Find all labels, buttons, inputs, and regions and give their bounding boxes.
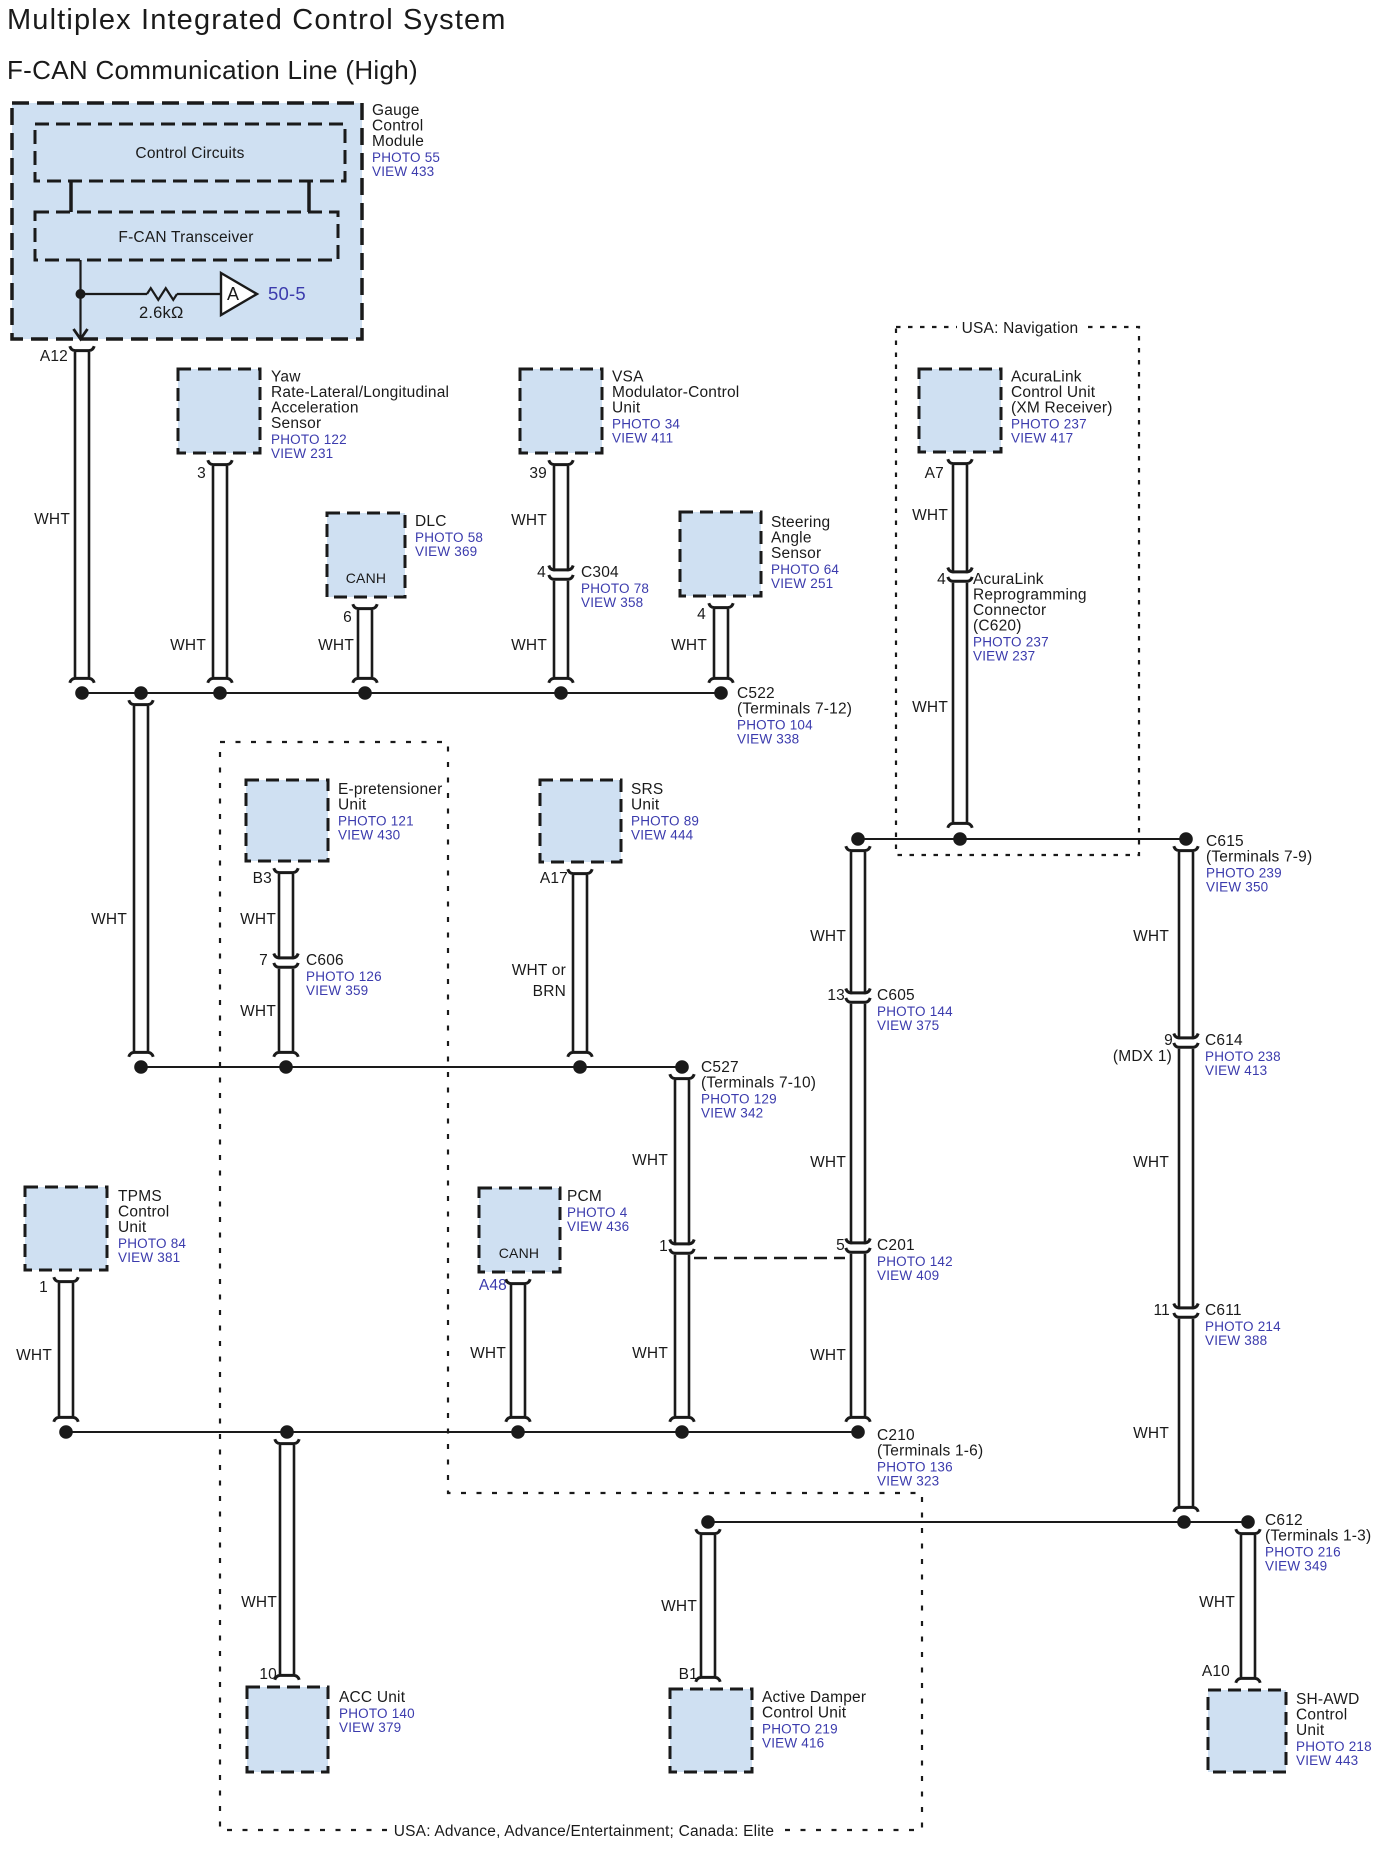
junction dot: bottom bus left end	[701, 1515, 715, 1529]
label block: TPMS control unit	[118, 1188, 186, 1265]
label block: DLC	[415, 513, 483, 559]
junction dot: C210 bus at C527 wire	[675, 1425, 689, 1439]
svg-text:BRN: BRN	[533, 983, 566, 1000]
svg-text:WHT: WHT	[632, 1152, 668, 1169]
svg-text:PHOTO 89: PHOTO 89	[631, 814, 699, 829]
svg-text:VIEW 433: VIEW 433	[372, 164, 434, 179]
svg-text:VIEW 436: VIEW 436	[567, 1219, 629, 1234]
wire: transceiver output down to A12 with arrow	[74, 260, 88, 339]
F-CAN Transceiver box	[35, 212, 338, 260]
svg-text:VIEW 409: VIEW 409	[877, 1268, 939, 1283]
svg-text:PHOTO 55: PHOTO 55	[372, 150, 440, 165]
svg-text:WHT: WHT	[318, 637, 354, 654]
wire Yaw pin3 to bus1	[208, 460, 232, 683]
label block: SRS unit	[631, 781, 699, 843]
svg-text:WHT: WHT	[34, 511, 70, 528]
svg-text:Unit: Unit	[631, 797, 660, 814]
svg-text:PHOTO 84: PHOTO 84	[118, 1236, 186, 1251]
svg-text:3: 3	[197, 465, 206, 482]
svg-text:WHT: WHT	[661, 1598, 697, 1615]
svg-text:SH-AWD: SH-AWD	[1296, 1691, 1359, 1708]
E-pretensioner unit box	[246, 780, 328, 861]
svg-text:C606: C606	[306, 952, 344, 969]
AcuraLink control unit box	[919, 369, 1001, 452]
svg-text:C614: C614	[1205, 1032, 1243, 1049]
svg-text:PHOTO 126: PHOTO 126	[306, 969, 382, 984]
svg-text:Rate-Lateral/Longitudinal: Rate-Lateral/Longitudinal	[271, 384, 449, 401]
wire bus1 to bus2 (left trunk)	[129, 700, 153, 1057]
svg-text:Angle: Angle	[771, 530, 812, 547]
svg-text:(Terminals 1-3): (Terminals 1-3)	[1265, 1528, 1371, 1545]
svg-text:VIEW 251: VIEW 251	[771, 576, 833, 591]
svg-text:PHOTO 64: PHOTO 64	[771, 562, 839, 577]
svg-text:4: 4	[937, 571, 946, 588]
svg-text:Control: Control	[118, 1204, 169, 1221]
svg-text:VIEW 375: VIEW 375	[877, 1018, 939, 1033]
svg-text:PHOTO 4: PHOTO 4	[567, 1205, 628, 1220]
svg-text:WHT: WHT	[671, 637, 707, 654]
VSA modulator box	[520, 369, 602, 453]
svg-text:9: 9	[1164, 1032, 1173, 1049]
label block: Gauge Control Module	[372, 102, 440, 179]
wire C527 to C210 bus via C527 pin1	[670, 1074, 694, 1422]
svg-text:VIEW 444: VIEW 444	[631, 828, 694, 843]
svg-text:VIEW 381: VIEW 381	[118, 1250, 180, 1265]
DLC box	[327, 513, 405, 597]
svg-text:Sensor: Sensor	[771, 545, 821, 562]
svg-text:PHOTO 78: PHOTO 78	[581, 581, 649, 596]
svg-text:VIEW 430: VIEW 430	[338, 828, 400, 843]
svg-text:PHOTO 34: PHOTO 34	[612, 417, 680, 432]
svg-text:C527: C527	[701, 1059, 739, 1076]
svg-text:PHOTO 219: PHOTO 219	[762, 1722, 838, 1737]
svg-text:USA: Advance, Advance/Entertai: USA: Advance, Advance/Entertainment; Can…	[394, 1823, 775, 1840]
junction dot: C210 bus at PCM	[511, 1425, 525, 1439]
svg-text:6: 6	[343, 609, 352, 626]
wire E-pretensioner B3 to bus2 via C606	[274, 868, 298, 1057]
svg-text:WHT or: WHT or	[512, 962, 566, 979]
wire nav bus to C210 bus via C605 and C201	[846, 846, 870, 1422]
wire: F-CAN bus segment 3 (C210)	[66, 1431, 858, 1433]
svg-text:WHT: WHT	[810, 1347, 846, 1364]
svg-text:Steering: Steering	[771, 514, 830, 531]
svg-text:AcuraLink: AcuraLink	[1011, 369, 1082, 386]
label block: C522	[737, 685, 852, 747]
svg-text:PHOTO 144: PHOTO 144	[877, 1004, 953, 1019]
svg-text:Unit: Unit	[612, 400, 641, 417]
svg-text:1: 1	[659, 1238, 668, 1255]
svg-text:WHT: WHT	[912, 507, 948, 524]
svg-text:VIEW 413: VIEW 413	[1205, 1063, 1267, 1078]
wire DLC pin6 to bus1	[353, 604, 377, 683]
svg-text:PHOTO 214: PHOTO 214	[1205, 1319, 1281, 1334]
label block: Steering angle sensor	[771, 514, 839, 591]
Gauge Control Module box	[12, 103, 362, 339]
wire bottom bus to Active Damper B1	[696, 1529, 720, 1682]
junction dot: bottom bus at C612	[1241, 1515, 1255, 1529]
junction dot: bus1 trunk	[134, 686, 148, 700]
svg-text:WHT: WHT	[1133, 1154, 1169, 1171]
svg-text:PHOTO 122: PHOTO 122	[271, 432, 347, 447]
svg-text:(Terminals 7-9): (Terminals 7-9)	[1206, 849, 1312, 866]
svg-text:A17: A17	[540, 870, 568, 887]
junction dot: bus2 at SRS	[573, 1060, 587, 1074]
svg-text:C522: C522	[737, 685, 775, 702]
label block: Yaw sensor	[271, 369, 449, 462]
svg-text:4: 4	[697, 606, 706, 623]
SH-AWD control unit box	[1208, 1690, 1286, 1772]
svg-text:Unit: Unit	[1296, 1722, 1325, 1739]
svg-text:A12: A12	[40, 348, 68, 365]
svg-text:A7: A7	[925, 465, 944, 482]
svg-text:USA: Navigation: USA: Navigation	[962, 320, 1079, 337]
svg-text:Yaw: Yaw	[271, 369, 301, 386]
wire: node to resistor	[81, 293, 148, 295]
svg-text:VIEW 323: VIEW 323	[877, 1474, 939, 1489]
svg-text:VIEW 417: VIEW 417	[1011, 431, 1073, 446]
svg-text:(Terminals 7-10): (Terminals 7-10)	[701, 1075, 816, 1092]
Steering angle sensor box	[680, 512, 761, 596]
junction dot: bus1 at C522	[714, 686, 728, 700]
svg-text:AcuraLink: AcuraLink	[973, 571, 1044, 588]
svg-text:C210: C210	[877, 1427, 915, 1444]
junction dot: C210 bus right end	[851, 1425, 865, 1439]
svg-text:PHOTO 104: PHOTO 104	[737, 718, 813, 733]
svg-text:PCM: PCM	[567, 1188, 602, 1205]
junction dot: nav bus left end	[851, 832, 865, 846]
label block: Active damper control unit	[762, 1689, 866, 1751]
label block: AcuraLink reprogramming connector	[973, 571, 1087, 664]
svg-text:Control Circuits: Control Circuits	[135, 145, 244, 162]
svg-text:Control Unit: Control Unit	[762, 1705, 847, 1722]
svg-text:WHT: WHT	[1133, 928, 1169, 945]
label block: C612	[1265, 1512, 1371, 1574]
svg-text:PHOTO 237: PHOTO 237	[973, 635, 1049, 650]
junction dot: bus1 at DLC	[358, 686, 372, 700]
svg-text:C615: C615	[1206, 833, 1244, 850]
junction dot: bus1 at VSA	[554, 686, 568, 700]
wire: F-CAN bus segment 2 (C527)	[141, 1066, 682, 1068]
ACC unit box	[247, 1687, 328, 1772]
svg-text:7: 7	[259, 952, 268, 969]
svg-text:39: 39	[529, 465, 547, 482]
wire C210 bus to ACC unit pin10	[275, 1439, 299, 1680]
label block: PCM	[567, 1188, 629, 1234]
svg-text:Unit: Unit	[338, 797, 367, 814]
svg-text:PHOTO 239: PHOTO 239	[1206, 866, 1282, 881]
svg-text:VIEW 416: VIEW 416	[762, 1736, 824, 1751]
svg-text:VIEW 359: VIEW 359	[306, 983, 368, 998]
svg-text:C612: C612	[1265, 1512, 1303, 1529]
svg-text:PHOTO 129: PHOTO 129	[701, 1092, 777, 1107]
svg-text:WHT: WHT	[470, 1345, 506, 1362]
svg-text:SRS: SRS	[631, 781, 663, 798]
svg-text:(XM Receiver): (XM Receiver)	[1011, 400, 1113, 417]
SRS unit box	[540, 780, 621, 862]
svg-text:WHT: WHT	[511, 512, 547, 529]
wire: resistor to buffer A	[177, 293, 221, 295]
svg-text:VIEW 411: VIEW 411	[612, 431, 673, 446]
svg-text:PHOTO 142: PHOTO 142	[877, 1254, 953, 1269]
svg-text:Connector: Connector	[973, 602, 1046, 619]
junction dot: nav bus at C615	[1179, 832, 1193, 846]
svg-text:Control: Control	[1296, 1707, 1347, 1724]
svg-text:B1: B1	[679, 1666, 698, 1683]
junction dot: bus2 at C527	[675, 1060, 689, 1074]
svg-text:WHT: WHT	[1199, 1594, 1235, 1611]
svg-text:PHOTO 238: PHOTO 238	[1205, 1049, 1281, 1064]
svg-text:WHT: WHT	[16, 1347, 52, 1364]
junction dot: bus1 at A12	[75, 686, 89, 700]
svg-text:WHT: WHT	[91, 911, 127, 928]
svg-text:PHOTO 216: PHOTO 216	[1265, 1545, 1341, 1560]
svg-text:F-CAN Transceiver: F-CAN Transceiver	[118, 229, 253, 246]
wire PCM A48 to C210 bus	[506, 1279, 530, 1422]
svg-text:Sensor: Sensor	[271, 415, 321, 432]
svg-text:DLC: DLC	[415, 513, 447, 530]
svg-text:10: 10	[259, 1666, 277, 1683]
svg-text:C605: C605	[877, 987, 915, 1004]
wire AcuraLink A7 to nav bus via C620	[948, 459, 972, 828]
svg-text:A: A	[227, 284, 239, 304]
svg-text:VIEW 237: VIEW 237	[973, 649, 1035, 664]
link control-circuits to transceiver left	[69, 181, 73, 212]
svg-text:1: 1	[39, 1279, 48, 1296]
svg-text:2.6kΩ: 2.6kΩ	[139, 304, 184, 322]
svg-text:Active Damper: Active Damper	[762, 1689, 866, 1706]
svg-text:Multiplex Integrated Control S: Multiplex Integrated Control System	[7, 4, 507, 36]
wire Steering pin4 to bus1	[709, 603, 733, 683]
junction dot: C210 bus at ACC	[280, 1425, 294, 1439]
junction dot: bus2 at E-pretensioner	[279, 1060, 293, 1074]
Active damper control unit box	[670, 1689, 752, 1772]
wire A12 to bus1	[70, 352, 94, 683]
svg-text:B3: B3	[253, 870, 272, 887]
label block: ACC unit	[339, 1689, 415, 1735]
svg-text:E-pretensioner: E-pretensioner	[338, 781, 442, 798]
svg-text:VIEW 349: VIEW 349	[1265, 1559, 1327, 1574]
svg-text:Acceleration: Acceleration	[271, 400, 359, 417]
label block: AcuraLink control unit	[1011, 369, 1113, 446]
svg-text:11: 11	[1154, 1302, 1171, 1319]
svg-text:ACC Unit: ACC Unit	[339, 1689, 406, 1706]
svg-text:VIEW 350: VIEW 350	[1206, 880, 1268, 895]
svg-text:VIEW 358: VIEW 358	[581, 595, 643, 610]
PCM box	[479, 1188, 560, 1272]
Control Circuits box	[35, 124, 345, 181]
svg-text:VIEW 379: VIEW 379	[339, 1720, 401, 1735]
link control-circuits to transceiver right	[307, 181, 311, 212]
svg-text:VIEW 369: VIEW 369	[415, 544, 477, 559]
svg-text:CANH: CANH	[346, 570, 386, 586]
svg-text:WHT: WHT	[511, 637, 547, 654]
label block: VSA modulator	[612, 369, 739, 446]
TPMS control unit box	[25, 1187, 107, 1270]
svg-text:TPMS: TPMS	[118, 1188, 162, 1205]
wire: F-CAN bus segment 4 (C612)	[708, 1521, 1248, 1523]
svg-text:Unit: Unit	[118, 1219, 147, 1236]
region box: USA Advance / Canada Elite	[220, 742, 922, 1840]
wire VSA pin39 to bus1 via C304	[549, 460, 573, 683]
svg-text:VIEW 443: VIEW 443	[1296, 1753, 1358, 1768]
svg-text:WHT: WHT	[170, 637, 206, 654]
svg-text:PHOTO 136: PHOTO 136	[877, 1460, 953, 1475]
svg-text:WHT: WHT	[810, 928, 846, 945]
svg-text:WHT: WHT	[240, 911, 276, 928]
svg-text:PHOTO 121: PHOTO 121	[338, 814, 414, 829]
svg-text:Control: Control	[372, 118, 423, 135]
svg-text:C201: C201	[877, 1237, 915, 1254]
svg-text:4: 4	[537, 564, 546, 581]
svg-text:VIEW 338: VIEW 338	[737, 732, 799, 747]
svg-text:PHOTO 140: PHOTO 140	[339, 1706, 415, 1721]
svg-text:PHOTO 58: PHOTO 58	[415, 530, 483, 545]
svg-text:50-5: 50-5	[268, 283, 306, 304]
svg-text:F-CAN Communication Line (High: F-CAN Communication Line (High)	[7, 55, 418, 85]
svg-text:WHT: WHT	[810, 1154, 846, 1171]
svg-text:VIEW 388: VIEW 388	[1205, 1333, 1267, 1348]
svg-text:PHOTO 218: PHOTO 218	[1296, 1739, 1372, 1754]
svg-text:(Terminals 7-12): (Terminals 7-12)	[737, 701, 852, 718]
label block: C615	[1206, 833, 1312, 895]
terminal A12 cap	[70, 346, 94, 350]
wire C612 to SH-AWD A10	[1236, 1529, 1260, 1683]
svg-text:WHT: WHT	[632, 1345, 668, 1362]
wire C615 to C612 bus via C614 and C611	[1174, 846, 1198, 1512]
resistor 2.6k ohm	[147, 288, 177, 300]
junction dot: nav bus at AcuraLink	[953, 832, 967, 846]
svg-text:VSA: VSA	[612, 369, 644, 386]
wire: F-CAN bus segment 1 (C522)	[82, 692, 721, 694]
svg-text:Modulator-Control: Modulator-Control	[612, 384, 739, 401]
junction dot: bottom bus at nav-right	[1177, 1515, 1191, 1529]
label block: E-pretensioner unit	[338, 781, 442, 843]
svg-text:Control Unit: Control Unit	[1011, 384, 1096, 401]
svg-text:WHT: WHT	[241, 1594, 277, 1611]
svg-text:CANH: CANH	[499, 1245, 539, 1261]
region box: USA Navigation	[896, 318, 1139, 855]
junction dot: bus1 at Yaw	[213, 686, 227, 700]
junction dot: GCM internal node	[76, 289, 86, 299]
svg-text:Module: Module	[372, 133, 424, 150]
svg-text:5: 5	[836, 1237, 845, 1254]
svg-text:Gauge: Gauge	[372, 102, 420, 119]
wire: F-CAN nav bus (C615)	[858, 838, 1186, 840]
junction dot: C210 bus left end	[59, 1425, 73, 1439]
svg-text:C611: C611	[1205, 1302, 1242, 1319]
svg-text:(MDX 1): (MDX 1)	[1113, 1048, 1172, 1065]
svg-text:C304: C304	[581, 564, 619, 581]
svg-text:A48: A48	[479, 1277, 507, 1294]
svg-text:VIEW 342: VIEW 342	[701, 1106, 763, 1121]
svg-text:WHT: WHT	[912, 699, 948, 716]
label block: C210	[877, 1427, 983, 1489]
wire SRS A17 to bus2	[568, 869, 592, 1057]
svg-text:(Terminals 1-6): (Terminals 1-6)	[877, 1443, 983, 1460]
Yaw rate sensor box	[178, 369, 260, 453]
svg-text:VIEW 231: VIEW 231	[271, 446, 333, 461]
junction dot: bus2 trunk	[134, 1060, 148, 1074]
dashed link between C527 pin1 and C201 pin5	[694, 1257, 845, 1259]
svg-text:PHOTO 237: PHOTO 237	[1011, 417, 1087, 432]
svg-text:A10: A10	[1202, 1663, 1230, 1680]
label block: SH-AWD control unit	[1296, 1691, 1372, 1768]
svg-text:WHT: WHT	[1133, 1425, 1169, 1442]
svg-text:WHT: WHT	[240, 1003, 276, 1020]
label block: C527	[701, 1059, 816, 1121]
buffer amplifier A	[221, 273, 257, 315]
svg-text:(C620): (C620)	[973, 618, 1022, 635]
svg-text:Reprogramming: Reprogramming	[973, 587, 1087, 604]
wire TPMS pin1 to C210 bus	[54, 1277, 78, 1422]
svg-text:13: 13	[827, 987, 845, 1004]
